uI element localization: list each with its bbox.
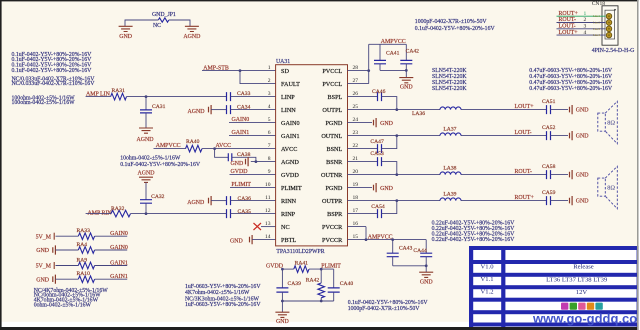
svg-text:AVCC: AVCC	[216, 143, 232, 149]
node GAIN0 (row RA33)	[95, 231, 128, 237]
wire AMPVCC to CA43/CA44	[366, 239, 426, 241]
ground GND below CA44	[419, 272, 433, 285]
wire RA32 to CA35, junction	[131, 212, 227, 215]
svg-text:CA31: CA31	[152, 104, 166, 110]
node LOUT+ / wire to CN18 pin 4	[557, 30, 606, 37]
white strip above bottom border	[0, 322, 469, 327]
svg-text:LT36 LT37 LT38 LT39: LT36 LT37 LT38 LT39	[546, 276, 608, 283]
value labels 10ohm / 0.1uF (mid)	[120, 155, 201, 168]
ground AGND (jumper right)	[183, 26, 201, 40]
power GND port at pin 14 PBTL	[230, 235, 276, 244]
ground GND (jumper left)	[119, 26, 133, 40]
svg-text:CA54: CA54	[371, 204, 385, 210]
wire pins 28/27 to AMPVCC rail	[348, 44, 407, 83]
value label block 1uF-0603 x4	[185, 284, 261, 308]
value label block 100ohm x2	[12, 95, 76, 106]
capacitor CA43	[387, 238, 413, 266]
power GND port at pin 24 PGND	[348, 118, 394, 127]
pin 9 GVDD	[268, 169, 300, 179]
pin 19 PGND	[325, 182, 358, 192]
svg-text:0.1uF-0402-Y5V-+80%-20%-16V: 0.1uF-0402-Y5V-+80%-20%-16V	[12, 68, 93, 74]
capacitor CA32	[140, 183, 165, 214]
capacitor CA42	[400, 44, 419, 70]
power GND port after CA59	[551, 196, 590, 205]
watermark www.go-gddq.com	[532, 311, 640, 326]
svg-text:1000pF-0402-X7R-±10%-50V: 1000pF-0402-X7R-±10%-50V	[348, 306, 421, 312]
resistor RA40	[186, 139, 203, 152]
svg-text:GND: GND	[276, 319, 290, 325]
capacitor CA41	[374, 44, 400, 70]
capacitor CA51	[542, 99, 556, 114]
svg-text:LINP: LINP	[281, 94, 295, 101]
svg-text:www.go-gddq.com: www.go-gddq.com	[532, 311, 640, 326]
wire AGND to CA34	[211, 109, 226, 111]
svg-text:GAIN1: GAIN1	[110, 274, 128, 280]
svg-text:PLIMIT: PLIMIT	[281, 185, 302, 192]
svg-text:OUTPR: OUTPR	[322, 198, 343, 205]
wire CA38 to pin 8 AGND, junction	[232, 157, 276, 163]
capacitor CA47 (BSNL)	[348, 139, 384, 153]
capacitor CA34	[227, 104, 251, 114]
power 5V_M port (row RA9)	[36, 262, 55, 270]
inductor LA38	[440, 165, 461, 174]
svg-text:NC/0.033uF-0402-X7R-±10%-16V: NC/0.033uF-0402-X7R-±10%-16V	[12, 81, 96, 87]
svg-text:V1.1: V1.1	[480, 276, 493, 283]
svg-text:AGND: AGND	[136, 137, 154, 143]
svg-text:AMPVCC: AMPVCC	[381, 39, 406, 45]
wire OUT row to LA38	[348, 174, 441, 176]
pin 13 NC	[265, 221, 290, 231]
capacitor CA39	[276, 269, 301, 301]
svg-text:GAIN0: GAIN0	[232, 117, 250, 123]
svg-text:27: 27	[353, 78, 359, 84]
svg-text:CA41: CA41	[386, 51, 400, 57]
node ROUT+ / wire to CN18 pin 1	[557, 11, 606, 18]
svg-text:GND: GND	[119, 34, 133, 40]
svg-text:4PIN-2.54-D-H-G: 4PIN-2.54-D-H-G	[592, 48, 635, 54]
pin 15 PVCCR	[322, 234, 358, 244]
node PLIMIT (bottom)	[321, 264, 341, 270]
op-amp U1 IC UA31 TPA3110LD2PWPR body	[276, 59, 348, 255]
wire AMP-STB to pins 1 and 2	[202, 69, 276, 83]
svg-text:GND: GND	[576, 133, 590, 139]
pin 17 BSPR	[327, 208, 358, 218]
node LOUT- / wire to CN18 pin 3	[557, 24, 606, 31]
svg-text:CA58: CA58	[542, 164, 556, 170]
svg-text:V1.0: V1.0	[480, 263, 494, 270]
pin 2 FAULT	[268, 78, 300, 88]
capacitor CA58	[542, 164, 556, 179]
watermark logo blocks	[561, 303, 603, 310]
inductor LA36	[412, 107, 461, 117]
svg-text:4K7ohm-0402-±5%-1/16W: 4K7ohm-0402-±5%-1/16W	[185, 290, 250, 296]
svg-text:RA31: RA31	[112, 88, 126, 94]
pin 26 BSPL	[328, 91, 359, 101]
svg-text:19: 19	[353, 182, 359, 188]
svg-text:BSPR: BSPR	[327, 211, 343, 218]
capacitor CA52	[542, 125, 556, 140]
svg-text:CA51: CA51	[542, 99, 556, 105]
speaker SP2 8 ohm (dashed)	[598, 166, 618, 209]
pin 3 LINP	[268, 91, 296, 101]
svg-text:LOUT-: LOUT-	[515, 130, 532, 136]
jumper JP1 GND_JP1	[152, 12, 176, 29]
svg-text:25: 25	[353, 104, 359, 110]
wire bottom rail to GND	[281, 300, 334, 313]
node AMPVCC (to RA40)	[154, 143, 186, 149]
wire OUT row to LA37	[348, 135, 441, 137]
svg-text:GAIN0: GAIN0	[281, 120, 300, 127]
wire jumper left to GND	[125, 20, 158, 26]
power GND port after CA51	[551, 105, 590, 114]
capacitor CA53 (BSNR)	[348, 151, 384, 166]
wire CA54 to OUTPR	[382, 199, 399, 213]
svg-text:6: 6	[268, 130, 271, 136]
svg-text:2: 2	[268, 78, 271, 84]
capacitor CA36	[227, 196, 252, 205]
svg-text:ROUT-: ROUT-	[515, 169, 532, 175]
capacitor CA59	[542, 190, 556, 205]
svg-text:NC: NC	[153, 23, 161, 29]
node PLIMIT (pin 10)	[230, 182, 276, 188]
resistor RA10	[77, 271, 95, 283]
wire CA36 to pin 11	[231, 200, 276, 202]
svg-text:V1.2: V1.2	[480, 288, 493, 295]
svg-text:LA37: LA37	[443, 126, 456, 132]
pin 6 GAIN1	[268, 130, 300, 140]
node GAIN0 (row RA4)	[95, 245, 128, 251]
wire LA36 to CA51 / node LOUT+	[461, 104, 547, 110]
svg-text:PVCCL: PVCCL	[322, 81, 342, 88]
value label block SLN54T x4	[432, 68, 467, 92]
svg-text:5V_M: 5V_M	[36, 264, 52, 270]
wire GND to RA10	[56, 278, 79, 280]
svg-text:AVCC: AVCC	[281, 146, 297, 153]
wire jumper right to AGND	[169, 20, 190, 26]
svg-text:CA47: CA47	[370, 139, 384, 145]
svg-text:BSNR: BSNR	[326, 159, 343, 166]
svg-text:12: 12	[265, 208, 271, 214]
svg-text:CA59: CA59	[542, 190, 556, 196]
svg-text:RA32: RA32	[111, 206, 125, 212]
wire CA34 to pin 4	[231, 109, 276, 111]
wire 5V_M to RA33	[56, 235, 79, 237]
svg-text:GAIN1: GAIN1	[281, 133, 300, 140]
svg-text:LOUT+: LOUT+	[515, 104, 535, 110]
svg-text:AGND: AGND	[188, 109, 206, 115]
pin 16 PVCCR	[322, 221, 358, 231]
svg-text:0.22uF-0402-Y5V-+80%-20%-16V: 0.22uF-0402-Y5V-+80%-20%-16V	[432, 237, 516, 243]
svg-text:15: 15	[353, 234, 359, 240]
svg-text:16: 16	[353, 221, 359, 227]
power GND port after CA58	[551, 170, 590, 179]
svg-text:OUTNL: OUTNL	[321, 133, 342, 140]
pin 1 SD	[268, 65, 290, 75]
svg-text:LA39: LA39	[443, 191, 456, 197]
svg-text:CA44: CA44	[413, 248, 427, 254]
node GAIN1 (row RA10)	[95, 274, 128, 280]
wire GVDD rail	[281, 268, 334, 271]
wire CA53 to OUTNR	[382, 162, 399, 176]
capacitor CA38	[215, 149, 251, 162]
svg-text:GND: GND	[420, 280, 434, 286]
svg-text:AGND: AGND	[183, 34, 201, 40]
wire OUT row to LA39	[348, 200, 441, 202]
svg-text:SLN54T-220K: SLN54T-220K	[432, 86, 467, 92]
pin 20 OUTNR	[321, 169, 358, 179]
pin 11 RINN	[265, 195, 297, 205]
svg-text:PGND: PGND	[325, 120, 342, 127]
svg-text:GAIN1: GAIN1	[232, 130, 250, 136]
svg-text:RA9: RA9	[77, 257, 88, 263]
svg-text:GND: GND	[230, 238, 244, 244]
svg-text:UA31: UA31	[276, 59, 290, 65]
svg-text:SD: SD	[281, 68, 289, 75]
svg-text:GAIN0: GAIN0	[110, 231, 128, 237]
connector CN18	[592, 1, 635, 54]
svg-text:23: 23	[353, 130, 359, 136]
svg-text:20: 20	[353, 169, 359, 175]
svg-text:RA33: RA33	[77, 228, 91, 234]
svg-text:7: 7	[268, 143, 271, 149]
title block revision table	[469, 246, 640, 330]
svg-text:11: 11	[265, 195, 271, 201]
svg-text:PVCCL: PVCCL	[322, 68, 342, 75]
svg-text:8Ω: 8Ω	[607, 184, 615, 191]
node AVCC / wire to pin 7	[202, 143, 276, 150]
svg-text:Line3: Line3	[593, 27, 600, 31]
svg-text:AGND: AGND	[137, 171, 155, 177]
svg-text:GND: GND	[380, 186, 394, 192]
capacitor CA46 (BSPL)	[348, 89, 386, 101]
wire LA37 to CA52 / node LOUT-	[461, 130, 547, 136]
node AMPVCC (top right)	[381, 39, 406, 45]
power GND port after CA52	[551, 131, 590, 140]
svg-text:PVCCR: PVCCR	[322, 237, 343, 244]
value label block NC/4K7ohm x4	[34, 288, 109, 309]
capacitor CA40	[328, 269, 354, 301]
svg-text:GND: GND	[576, 172, 590, 178]
power GND port at pin 8	[231, 157, 249, 167]
svg-text:22: 22	[353, 143, 359, 149]
svg-text:PVCCR: PVCCR	[322, 224, 343, 231]
svg-text:CA46: CA46	[372, 89, 386, 95]
svg-text:GND: GND	[380, 121, 394, 127]
svg-text:0.47uF-0603-Y5V-+80%-20%-16V: 0.47uF-0603-Y5V-+80%-20%-16V	[529, 86, 613, 92]
svg-text:OUTNR: OUTNR	[321, 172, 343, 179]
svg-text:8: 8	[268, 156, 271, 162]
node ROUT- / wire to CN18 pin 2	[557, 17, 606, 24]
wire AMP RIN to RA32	[86, 213, 111, 215]
pin 23 OUTNL	[321, 130, 358, 140]
svg-text:CA42: CA42	[406, 48, 420, 54]
node AMP LIN	[86, 91, 111, 97]
svg-text:28: 28	[353, 65, 359, 71]
pin 7 AVCC	[268, 143, 298, 153]
svg-text:NC: NC	[281, 224, 290, 231]
svg-text:GND: GND	[576, 198, 590, 204]
ground GND (below CA42)	[399, 78, 413, 91]
svg-text:10ohm-0402-±5%-1/16W: 10ohm-0402-±5%-1/16W	[120, 155, 181, 161]
svg-text:0.1uF-0402-Y5V-+80%-20%-16V: 0.1uF-0402-Y5V-+80%-20%-16V	[415, 26, 496, 32]
node GAIN0 (pin 5)	[229, 117, 276, 123]
svg-text:RINN: RINN	[281, 198, 297, 205]
svg-text:OUTPL: OUTPL	[322, 107, 342, 114]
pin 14 PBTL	[265, 234, 296, 244]
resistor RA9	[77, 257, 95, 269]
ground GND (bottom middle)	[275, 312, 289, 325]
svg-text:26: 26	[353, 91, 359, 97]
inductor LA39	[440, 191, 461, 200]
svg-text:Release: Release	[573, 263, 594, 270]
pin 27 PVCCL	[322, 78, 358, 88]
pin 10 PLIMIT	[265, 182, 302, 192]
svg-text:24: 24	[353, 117, 359, 123]
svg-text:9: 9	[268, 169, 271, 175]
svg-text:RA41: RA41	[295, 260, 309, 266]
svg-text:BSNL: BSNL	[326, 146, 342, 153]
resistor RA4	[77, 242, 95, 254]
svg-text:17: 17	[353, 208, 359, 214]
svg-text:CA53: CA53	[370, 151, 384, 157]
wire AMP LIN to RA31	[86, 96, 111, 98]
svg-text:10: 10	[265, 182, 271, 188]
svg-text:12V: 12V	[576, 289, 588, 296]
power GND port at pin 19 PGND	[348, 183, 394, 192]
resistor RA41	[294, 260, 309, 272]
capacitor CA44	[413, 240, 432, 266]
wire CA35 to pin 12	[231, 213, 276, 215]
svg-text:PLIMIT: PLIMIT	[231, 182, 251, 188]
power GND port (row RA10)	[36, 275, 55, 284]
wire 5V_M to RA9	[56, 265, 79, 267]
svg-text:GAIN0: GAIN0	[110, 245, 128, 251]
node AMP RIN	[88, 210, 113, 216]
svg-text:4: 4	[268, 104, 271, 110]
wire caps bottoms to GND	[380, 69, 408, 78]
pin 12 RINP	[265, 208, 296, 218]
svg-text:5V_M: 5V_M	[36, 234, 52, 240]
pin 5 GAIN0	[268, 117, 300, 127]
svg-text:TPA3110LD2PWPR: TPA3110LD2PWPR	[276, 249, 324, 255]
svg-text:1: 1	[268, 65, 271, 71]
svg-text:CA32: CA32	[151, 194, 165, 200]
svg-text:GND: GND	[576, 107, 590, 113]
svg-text:CA43: CA43	[399, 246, 413, 252]
svg-text:LINN: LINN	[281, 107, 296, 114]
pin 25 OUTPL	[322, 104, 358, 114]
wire GND to RA4	[56, 249, 79, 251]
svg-text:RINP: RINP	[281, 211, 296, 218]
wire pins 16/15 PVCCR join	[348, 227, 368, 241]
wire OUT row to LA36	[348, 109, 441, 111]
pin 22 BSNL	[326, 143, 358, 153]
wire AGND to CA36	[211, 200, 226, 202]
wire RA31 to CA33, junction	[127, 95, 227, 98]
ground AGND above CA32 (inverted)	[137, 171, 155, 183]
wire LA38 to CA58 / node ROUT-	[461, 169, 547, 175]
svg-text:CA52: CA52	[542, 125, 556, 131]
svg-text:0ohm-0402-±5%-1/16W: 0ohm-0402-±5%-1/16W	[34, 302, 92, 308]
svg-text:100ohm-0402-±5%-1/16W: 100ohm-0402-±5%-1/16W	[12, 100, 76, 106]
svg-text:Line1: Line1	[593, 14, 600, 18]
value label block NC/0.033uF x2	[12, 76, 96, 87]
svg-text:PLIMIT: PLIMIT	[321, 264, 341, 270]
value label block 0.22uF x4	[432, 220, 516, 243]
svg-text:1000pF-0402-X7R-±10%-50V: 1000pF-0402-X7R-±10%-50V	[415, 19, 488, 25]
wire caps to GND (bottom right)	[393, 264, 428, 272]
svg-text:RA42: RA42	[306, 278, 320, 284]
pin 21 BSNR	[326, 156, 358, 166]
svg-text:RA4: RA4	[77, 242, 88, 248]
power AGND port at CA34	[188, 105, 212, 115]
svg-text:LA36: LA36	[412, 111, 425, 117]
svg-text:LA38: LA38	[443, 165, 456, 171]
svg-text:21: 21	[353, 156, 359, 162]
node GAIN1 (row RA9)	[95, 260, 128, 266]
svg-text:PBTL: PBTL	[281, 237, 296, 244]
svg-text:GND: GND	[231, 161, 245, 167]
value labels 1000pF/0.1uF (top right)	[415, 19, 496, 32]
node GAIN1 (pin 6)	[229, 130, 276, 136]
value label block 0.1uF x4	[12, 52, 93, 74]
svg-text:FAULT: FAULT	[281, 81, 300, 88]
svg-text:0.1uF-0402-Y5V-+80%-20%-16V: 0.1uF-0402-Y5V-+80%-20%-16V	[120, 162, 201, 168]
svg-text:13: 13	[265, 221, 271, 227]
svg-text:3: 3	[268, 91, 271, 97]
no-connect X at pin 13	[254, 223, 276, 230]
svg-text:8Ω: 8Ω	[607, 119, 615, 126]
wire CA46 to OUTPL	[382, 97, 399, 111]
pin 4 LINN	[268, 104, 297, 114]
pin 24 PGND	[325, 117, 358, 127]
resistor RA32	[111, 206, 131, 217]
svg-text:Line2: Line2	[593, 21, 600, 25]
node AMPVCC (pin 15)	[368, 234, 393, 240]
wire LA39 to CA59 / node ROUT+	[461, 195, 547, 201]
svg-text:1uF-0603-Y5V-+80%-20%-16V: 1uF-0603-Y5V-+80%-20%-16V	[185, 302, 261, 308]
capacitor CA35	[227, 209, 252, 218]
svg-text:Line4: Line4	[593, 33, 600, 37]
svg-text:GAIN1: GAIN1	[110, 260, 128, 266]
value label block 0.47uF x4	[529, 68, 613, 92]
svg-text:CA39: CA39	[288, 281, 302, 287]
node GVDD (pin 9)	[230, 169, 276, 175]
inductor LA37	[440, 126, 461, 135]
svg-text:GND_JP1: GND_JP1	[152, 12, 176, 18]
pin 8 AGND	[268, 156, 300, 166]
capacitor CA31	[140, 97, 166, 128]
svg-text:AGND: AGND	[187, 200, 205, 206]
ground AGND below CA31	[136, 128, 154, 143]
wire CA33 to pin 3	[231, 96, 276, 98]
capacitor CA54 (BSPR)	[348, 204, 385, 218]
svg-text:CA40: CA40	[340, 281, 354, 287]
svg-text:AGND: AGND	[281, 159, 299, 166]
resistor RA33	[77, 228, 95, 240]
value labels 0.1uF/1000pF (bottom middle)	[348, 300, 429, 312]
svg-text:14: 14	[265, 234, 271, 240]
pin 18 OUTPR	[322, 195, 358, 205]
node GVDD (bottom)	[266, 264, 284, 270]
wire CA47 to OUTNL	[382, 134, 399, 148]
resistor RA42	[306, 269, 325, 301]
pin 28 PVCCL	[322, 65, 358, 75]
capacitor CA33	[227, 91, 251, 101]
svg-text:GVDD: GVDD	[281, 172, 299, 179]
power 5V_M port (row RA33)	[36, 233, 55, 241]
svg-text:RA10: RA10	[77, 271, 91, 277]
